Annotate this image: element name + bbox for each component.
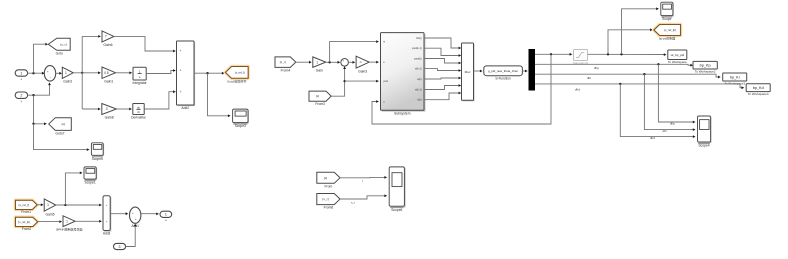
wire Add1 to outport [141, 213, 157, 215]
wire branch to Scope1 [65, 173, 80, 205]
scope Scope5 [92, 144, 104, 157]
svg-text:Add2: Add2 [181, 106, 189, 110]
gain Gain [313, 57, 326, 68]
wire Add2 to Goto5 [194, 72, 223, 74]
gain BPNN [63, 216, 75, 227]
svg-text:From4: From4 [281, 68, 291, 72]
svg-text:7: 7 [105, 35, 107, 39]
to-workspace bp_Kp [693, 61, 717, 69]
scope Scope (top right) [662, 3, 674, 16]
svg-text:+: + [342, 59, 344, 63]
wire Derivative to Add2 in3 [144, 92, 174, 109]
wire to Goto [x_r] [34, 44, 46, 73]
svg-text:1: 1 [316, 60, 318, 64]
svg-text:3: 3 [106, 107, 108, 111]
svg-text:u(k): u(k) [417, 99, 421, 102]
inport 3 [114, 243, 126, 249]
wire dKi down to Scope4 [644, 74, 693, 129]
svg-text:e(k-1): e(k-1) [415, 68, 422, 71]
svg-text:-1: -1 [359, 60, 362, 64]
svg-text:g_pid_new_theta_zhen: g_pid_new_theta_zhen [488, 69, 518, 73]
goto Goto7 [x] [49, 118, 72, 131]
svg-text:BPNN控制信号增益: BPNN控制信号增益 [56, 226, 82, 231]
svg-text:dKi: dKi [587, 76, 592, 80]
svg-text:Gain1: Gain1 [104, 80, 113, 84]
svg-text:From6: From6 [324, 206, 334, 210]
sum Add1 [130, 207, 141, 223]
wire Sum to Gain2 [56, 72, 61, 74]
wire From1 to Gain5 [37, 204, 42, 206]
svg-text:yout(k-1): yout(k-1) [412, 47, 422, 50]
goto Goto5 [x_ref_f] highlighted [226, 67, 249, 79]
svg-text:Gain2: Gain2 [63, 80, 72, 84]
gain Gain6 [102, 31, 114, 42]
goto Goto [x_r] [48, 38, 70, 50]
wire bus to Gain8 [82, 108, 99, 110]
sum Add (top-left) [44, 66, 55, 82]
svg-text:bp_Kd: bp_Kd [753, 86, 764, 90]
svg-text:Scope: Scope [662, 17, 672, 21]
svg-text:+: + [106, 219, 108, 223]
svg-text:Derivative: Derivative [131, 116, 146, 120]
svg-text:dt: dt [137, 110, 139, 114]
svg-text:1: 1 [47, 203, 49, 207]
svg-text:Gain: Gain [316, 69, 323, 73]
svg-text:+: + [132, 211, 134, 215]
svg-text:1: 1 [66, 219, 68, 223]
svg-text:Mux: Mux [465, 70, 471, 74]
wire Gain6 to Add2 in1 [114, 36, 174, 51]
s-function block [484, 66, 523, 76]
svg-text:Goto5前馈环节: Goto5前馈环节 [227, 79, 247, 84]
svg-text:1: 1 [165, 213, 167, 217]
svg-text:3: 3 [119, 245, 121, 249]
svg-text:xk_bp_pid: xk_bp_pid [670, 53, 684, 57]
scope Scope1 [85, 168, 97, 180]
svg-text:+: + [135, 217, 137, 221]
wire inport2 to Sum bottom [28, 84, 50, 95]
svg-text:x_r: x_r [351, 200, 355, 204]
wire demux out4 (dKd) to bp_Kd [535, 84, 743, 88]
from From [x] [317, 172, 340, 183]
to-workspace bp_Kd [746, 84, 770, 92]
svg-text:e(k): e(k) [417, 78, 421, 81]
from From1 [x_ref_f] highlighted [16, 200, 38, 209]
wire feedback demux out1 to Subsystem in4 [372, 54, 551, 124]
svg-text:[x_ref_fp]: [x_ref_fp] [664, 28, 676, 32]
svg-text:[x_ref_f]: [x_ref_f] [19, 203, 30, 207]
wire dKp down to Scope4 [658, 64, 693, 122]
svg-text:+: + [180, 49, 182, 53]
gain Gain5 [44, 199, 56, 211]
to-workspace bp_Ki [723, 73, 747, 81]
gain Gain1 [102, 67, 116, 78]
svg-text:+: + [180, 90, 182, 94]
wire Gain2 to bus [73, 72, 99, 74]
svg-text:[x_r]: [x_r] [60, 42, 66, 46]
inport 2 (y) [15, 92, 27, 98]
svg-text:[x]: [x] [324, 176, 327, 180]
subsystem Subsystem [382, 34, 426, 112]
svg-text:To Workspace4: To Workspace4 [748, 92, 769, 96]
svg-text:Integrator: Integrator [133, 81, 148, 85]
mux Mux [463, 44, 475, 101]
wire bus vertical [81, 36, 83, 109]
svg-text:0.5: 0.5 [104, 71, 109, 75]
goto [x_ref_fp] highlighted [654, 25, 680, 36]
adder Add2 [178, 42, 196, 106]
svg-text:To Workspace: To Workspace [668, 60, 687, 64]
svg-text:From1: From1 [21, 210, 31, 214]
wire From2 to BPNN gain [38, 221, 61, 223]
wire From6 to Scope6 in2 (x_r) [340, 196, 385, 199]
wire dKd down to Scope4 [620, 84, 694, 137]
wire Mux to S-Function [474, 70, 481, 72]
svg-text:e(k-1): e(k-1) [415, 89, 422, 92]
wire Gain8 to Derivative [116, 108, 130, 110]
svg-text:Add3: Add3 [103, 232, 111, 236]
svg-text:dKd: dKd [575, 88, 581, 92]
svg-text:Gain3: Gain3 [358, 69, 367, 73]
wire Add2 branch to Scope3 [208, 73, 229, 116]
svg-text:1: 1 [139, 70, 141, 74]
svg-text:+: + [180, 69, 182, 73]
svg-text:1: 1 [65, 71, 67, 75]
wire Gain to sum [326, 61, 339, 63]
scope Scope4 [698, 117, 711, 143]
adder Add3 [104, 197, 111, 232]
svg-text:Scope4: Scope4 [698, 144, 709, 148]
from From6 [x_r] [317, 194, 340, 205]
svg-text:[x_ref_f]: [x_ref_f] [235, 70, 245, 74]
svg-text:[x]: [x] [316, 94, 319, 98]
inport 1 (x) [15, 70, 27, 76]
svg-text:Subsystem: Subsystem [394, 111, 411, 115]
saturation Saturation3 (grayed) [574, 49, 588, 60]
svg-text:[x_r]: [x_r] [322, 197, 328, 201]
svg-text:yout(k): yout(k) [414, 58, 422, 61]
wire up to Goto [x_ref_fp] [608, 30, 651, 55]
wire bus to Gain6 [82, 35, 99, 37]
svg-text:+: + [106, 203, 108, 207]
scope Scope6 (tall) [390, 168, 405, 207]
svg-text:From2: From2 [22, 227, 32, 231]
wire Gain5 to Add3 in1 [56, 204, 100, 206]
wire S-Function to Demux [522, 70, 526, 72]
svg-text:Goto7: Goto7 [56, 131, 65, 135]
svg-text:dKp: dKp [594, 66, 600, 70]
wire Integrator to Add2 in2 [146, 71, 174, 74]
wire up to Scope (top right) [622, 9, 658, 55]
wires Subsystem outputs to Mux [424, 38, 460, 48]
from From4 [x_r] [275, 57, 296, 68]
svg-text:Gain8: Gain8 [105, 116, 114, 120]
svg-text:Scope5: Scope5 [92, 157, 103, 161]
svg-text:Scope6: Scope6 [391, 208, 402, 212]
gain Gain2 [62, 67, 73, 78]
wire demux out1 to Saturation3 and xk_bp_pid [535, 53, 571, 55]
gain Gain8 [102, 104, 117, 115]
wire Gain1 to Integrator [116, 72, 131, 74]
svg-text:yout: yout [383, 80, 388, 83]
from From2 [x_ref_fp] highlighted [16, 217, 38, 226]
wire From4 to Gain [296, 61, 310, 63]
demux black bar [529, 49, 536, 91]
to-workspace xk_bp_pid [668, 50, 687, 60]
svg-text:Scope1: Scope1 [85, 181, 96, 185]
svg-text:r: r [362, 179, 363, 183]
wire demux out3 (dKi) to bp_Ki [535, 74, 719, 77]
svg-text:-: - [345, 63, 346, 67]
svg-text:From: From [325, 184, 333, 188]
wire Gain3 to Subsystem in2 [369, 61, 377, 63]
wire Gain branch to Subsystem in1 [330, 42, 378, 63]
scope Scope3 [234, 110, 249, 124]
svg-text:+: + [47, 69, 49, 73]
svg-text:From3: From3 [315, 102, 325, 106]
sum circle (middle) [341, 59, 349, 67]
wire down to Goto7 [34, 95, 46, 124]
wire From to Scope6 in1 (r) [340, 176, 385, 178]
svg-text:[x]: [x] [62, 122, 65, 126]
wire demux out2 (dKp) to bp_Kp [535, 63, 691, 66]
svg-text:Scope3: Scope3 [235, 124, 246, 128]
svg-text:bp_Kp: bp_Kp [700, 64, 711, 68]
block Derivative [133, 104, 144, 115]
wire sum to Gain3 [348, 61, 353, 63]
svg-text:To Workspace2: To Workspace2 [695, 70, 716, 74]
svg-text:dKd: dKd [650, 136, 656, 140]
outport 1 (u) [160, 211, 172, 217]
svg-text:1: 1 [20, 71, 22, 75]
svg-text:2: 2 [20, 94, 22, 98]
wire down to Scope5 [34, 124, 88, 150]
svg-text:dKi: dKi [662, 129, 667, 133]
block Integrator [133, 67, 146, 80]
wire Add3 to Add1 [110, 213, 126, 215]
svg-text:[x_r]: [x_r] [280, 60, 286, 64]
svg-text:rin(k): rin(k) [416, 37, 422, 40]
gain Gain3 [356, 56, 369, 68]
svg-text:bp-pid控制器: bp-pid控制器 [659, 37, 675, 41]
wire inport3 up into Add1 [126, 225, 136, 246]
svg-text:Gain6: Gain6 [103, 43, 112, 47]
wire From3 to sum bottom and Subsystem in3 [331, 68, 344, 97]
svg-text:dKp: dKp [670, 121, 676, 125]
wire inport1 to Sum [28, 72, 44, 74]
svg-text:S-Function: S-Function [495, 77, 511, 81]
svg-text:Gain5: Gain5 [45, 212, 54, 216]
svg-text:Goto: Goto [56, 51, 63, 55]
from From3 [x] [309, 91, 331, 101]
svg-text:[x_ref_fp]: [x_ref_fp] [18, 220, 30, 224]
svg-text:bp_Ki: bp_Ki [730, 75, 740, 79]
wire BPNN gain to Add3 in2 [75, 220, 100, 222]
